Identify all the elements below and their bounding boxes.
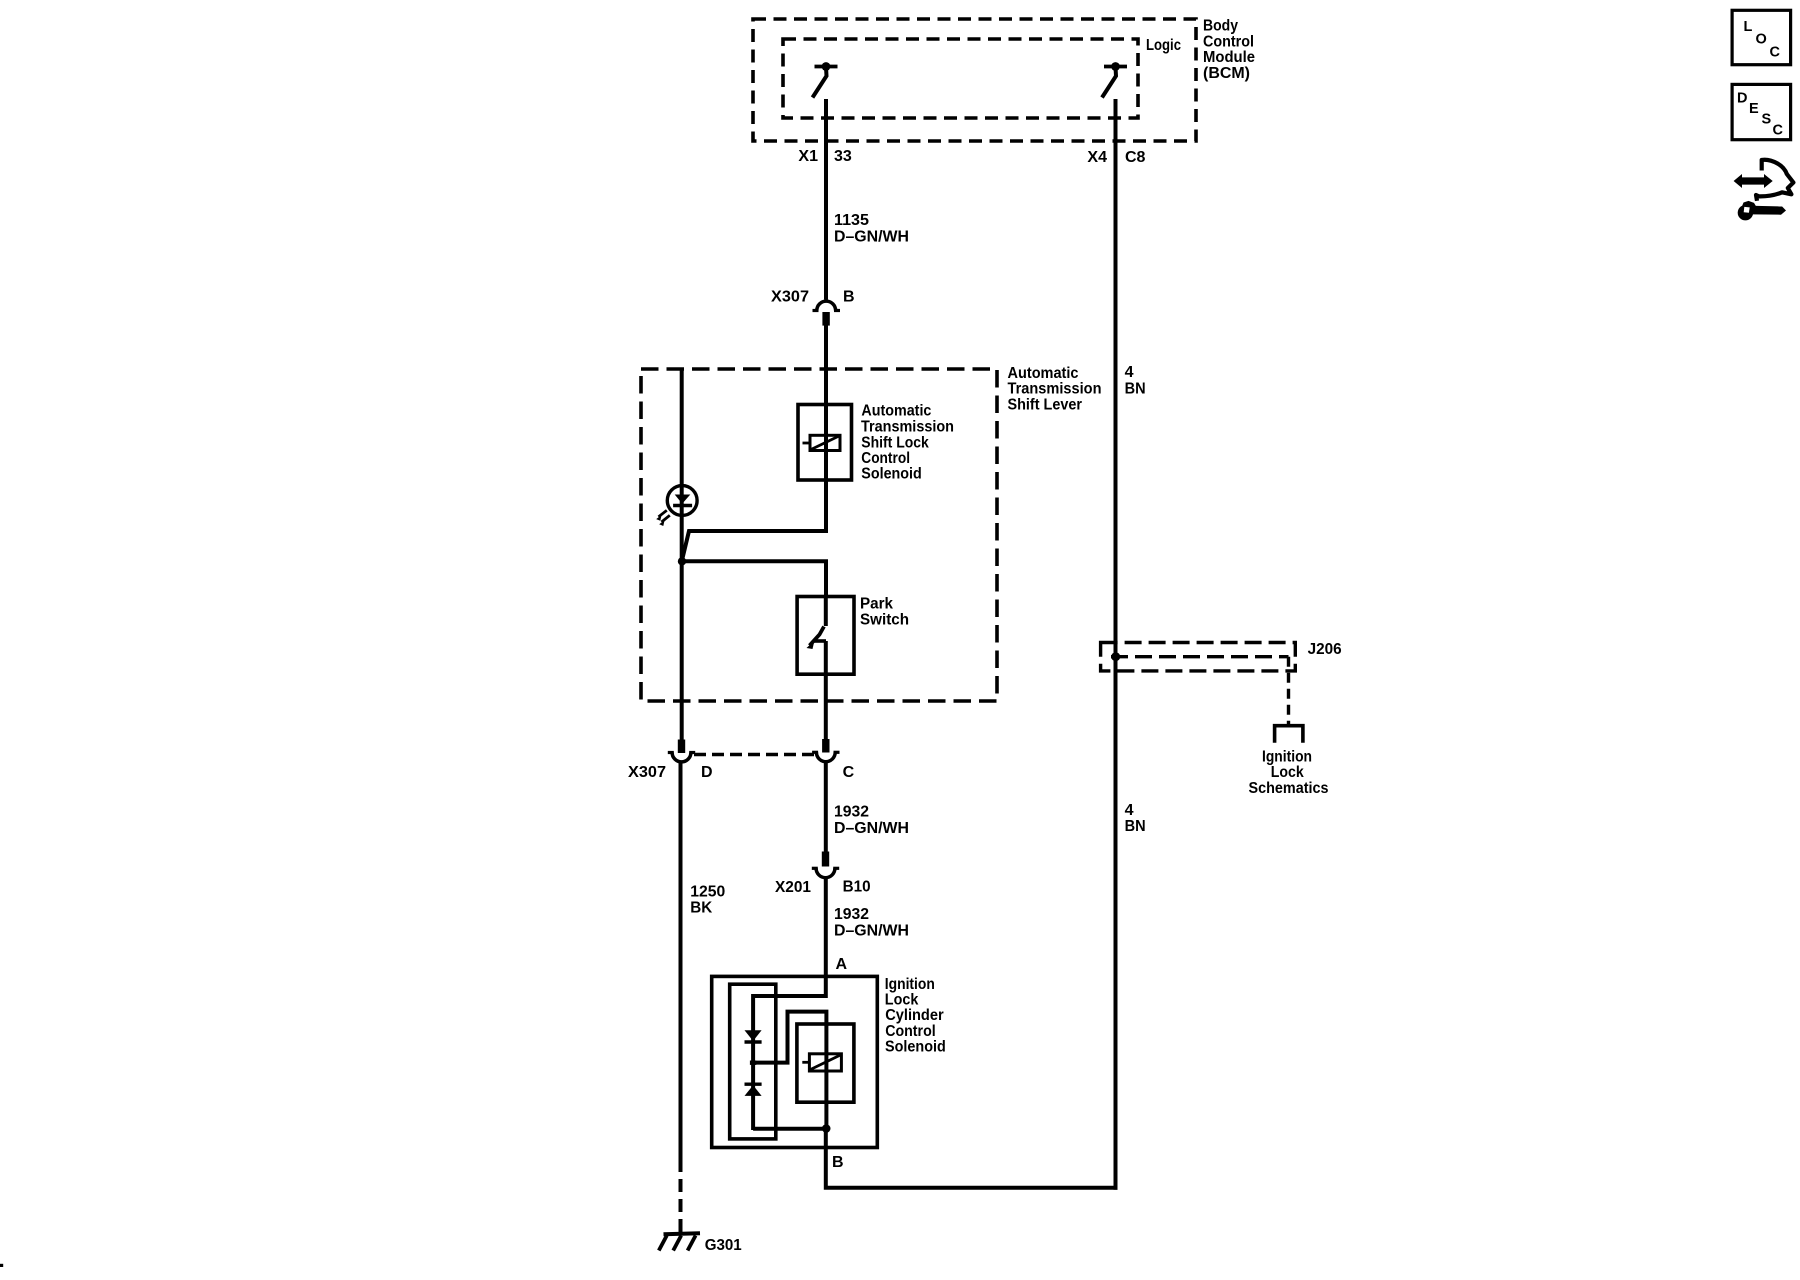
svg-text:BN: BN — [1125, 818, 1146, 835]
wire pin A turn left to diode branch — [753, 996, 826, 1130]
svg-text:Ignition: Ignition — [885, 976, 935, 993]
page margin tick — [0, 1264, 3, 1267]
svg-text:D–GN/WH: D–GN/WH — [834, 922, 909, 939]
svg-text:Body: Body — [1203, 18, 1238, 35]
LOC icon box — [1732, 10, 1791, 64]
wire BCM pin 33 down to X307 B — [824, 99, 828, 300]
svg-text:D–GN/WH: D–GN/WH — [834, 820, 909, 837]
svg-text:Ignition: Ignition — [1262, 748, 1312, 765]
svg-text:Cylinder: Cylinder — [885, 1007, 944, 1024]
wire X307 B down into shift lever box to solenoid — [824, 324, 828, 406]
J206 splice pack dashed box — [1101, 643, 1296, 671]
svg-text:Module: Module — [1203, 49, 1255, 66]
svg-text:E: E — [1749, 101, 1759, 117]
connector X307 C — [812, 739, 839, 762]
svg-text:Transmission: Transmission — [1008, 381, 1102, 398]
park switch box — [797, 597, 854, 675]
svg-text:Lock: Lock — [1271, 764, 1304, 781]
svg-text:Control: Control — [885, 1023, 936, 1040]
shift lock solenoid box — [798, 405, 852, 481]
diode D1 (top, cathode down) — [745, 1030, 762, 1042]
svg-text:C: C — [1770, 45, 1781, 61]
svg-text:1932: 1932 — [834, 804, 869, 821]
X307 D-C dashed link — [694, 753, 818, 756]
dashed drop to ignition lock schematics — [1287, 657, 1290, 724]
svg-text:1135: 1135 — [834, 212, 869, 229]
svg-text:Solenoid: Solenoid — [885, 1039, 946, 1056]
svg-text:B: B — [832, 1154, 844, 1171]
diode enclosure box — [730, 984, 776, 1139]
BCM driver switch right — [1102, 62, 1127, 97]
LED indicator — [656, 486, 697, 526]
svg-text:Logic: Logic — [1146, 37, 1181, 54]
park switch fixed contact wire — [824, 596, 828, 626]
solenoid symbol (shift lock) — [803, 435, 841, 450]
svg-text:J206: J206 — [1308, 641, 1342, 658]
svg-text:B10: B10 — [843, 879, 871, 896]
svg-text:Automatic: Automatic — [1008, 365, 1079, 382]
curved outline arrow — [1756, 160, 1793, 201]
svg-text:Park: Park — [860, 596, 893, 613]
svg-text:G301: G301 — [705, 1237, 742, 1254]
svg-text:Control: Control — [861, 450, 910, 467]
wire jog from solenoid down-left to LED wire junction — [682, 527, 826, 559]
svg-text:BK: BK — [690, 900, 712, 917]
svg-text:Switch: Switch — [860, 612, 909, 629]
svg-text:D: D — [701, 764, 713, 781]
double-headed arrow — [1734, 174, 1773, 188]
svg-text:4: 4 — [1125, 802, 1134, 819]
off-page connector bracket — [1275, 726, 1303, 743]
svg-text:D: D — [1737, 91, 1747, 107]
wire pin B down and right to BN wire — [826, 1129, 1116, 1188]
svg-text:1250: 1250 — [690, 884, 725, 901]
svg-text:C: C — [1773, 123, 1784, 139]
wire junction to park switch — [682, 561, 826, 598]
svg-text:B: B — [843, 289, 855, 306]
svg-text:A: A — [836, 956, 848, 973]
ground G301 — [659, 1233, 700, 1250]
svg-text:BN: BN — [1125, 381, 1146, 398]
wire X201 down to ignition solenoid pin A — [824, 878, 828, 998]
svg-text:L: L — [1744, 19, 1753, 35]
svg-text:X1: X1 — [798, 148, 818, 165]
J206 middle dashed line — [1111, 655, 1289, 658]
Automatic Transmission Shift Lever dashed box — [641, 369, 997, 701]
svg-text:1932: 1932 — [834, 906, 869, 923]
svg-text:Shift Lever: Shift Lever — [1008, 397, 1083, 414]
navigation icon (double arrow, curved arrow, wrench) — [1734, 160, 1794, 221]
svg-text:X307: X307 — [628, 764, 666, 781]
junction between diodes — [750, 1061, 756, 1065]
svg-text:Transmission: Transmission — [861, 418, 954, 435]
svg-text:33: 33 — [834, 148, 852, 165]
connector X307 B (female arc + male blade) — [813, 301, 841, 326]
wire diode mid-tap to coil feed — [753, 1012, 826, 1063]
solenoid symbol (ignition) — [802, 1054, 841, 1071]
dashed wire to ground — [679, 1172, 683, 1233]
svg-text:4: 4 — [1125, 364, 1134, 381]
junction dot on LED wire — [678, 557, 686, 565]
ignition solenoid inner box — [797, 1024, 854, 1102]
svg-text:D–GN/WH: D–GN/WH — [834, 229, 909, 246]
svg-text:Schematics: Schematics — [1249, 780, 1329, 797]
wire through solenoid box — [824, 404, 828, 529]
svg-text:Automatic: Automatic — [861, 403, 931, 420]
connector X307 D — [668, 740, 695, 762]
ignition lock solenoid outer box — [712, 976, 878, 1147]
wire X307 C down to X201 — [824, 762, 828, 852]
connector X201 B10 — [812, 852, 839, 878]
svg-text:X307: X307 — [771, 289, 809, 306]
svg-text:Lock: Lock — [885, 992, 919, 1009]
wire X307 D down (1250 BK) — [679, 762, 683, 1172]
junction dot B — [822, 1124, 831, 1133]
BCM Logic inner dashed box — [783, 39, 1138, 118]
svg-text:O: O — [1756, 32, 1767, 48]
junction dot J206 — [1111, 652, 1120, 661]
svg-text:X4: X4 — [1087, 149, 1107, 166]
right wire BCM X4 C8 down — [1114, 99, 1118, 1190]
svg-text:C: C — [843, 764, 855, 781]
wire park switch down to X307 C — [824, 641, 828, 752]
BCM outer dashed box — [753, 19, 1196, 141]
wrench — [1738, 205, 1753, 220]
DESC icon box — [1732, 84, 1791, 139]
park switch lever — [807, 627, 827, 650]
svg-text:C8: C8 — [1125, 149, 1146, 166]
diode D2 (bottom, cathode up) — [745, 1084, 762, 1096]
svg-text:X201: X201 — [775, 879, 811, 896]
LED wire (left vertical in shift lever box) — [680, 369, 684, 753]
svg-text:Control: Control — [1203, 34, 1254, 51]
svg-text:Solenoid: Solenoid — [861, 466, 922, 483]
wire through ignition solenoid — [824, 1024, 828, 1130]
BCM driver switch left — [813, 62, 838, 97]
svg-text:S: S — [1762, 112, 1772, 128]
svg-text:Shift Lock: Shift Lock — [861, 434, 929, 451]
svg-text:(BCM): (BCM) — [1203, 65, 1250, 82]
bottom wire diodes to junction — [753, 1127, 826, 1131]
